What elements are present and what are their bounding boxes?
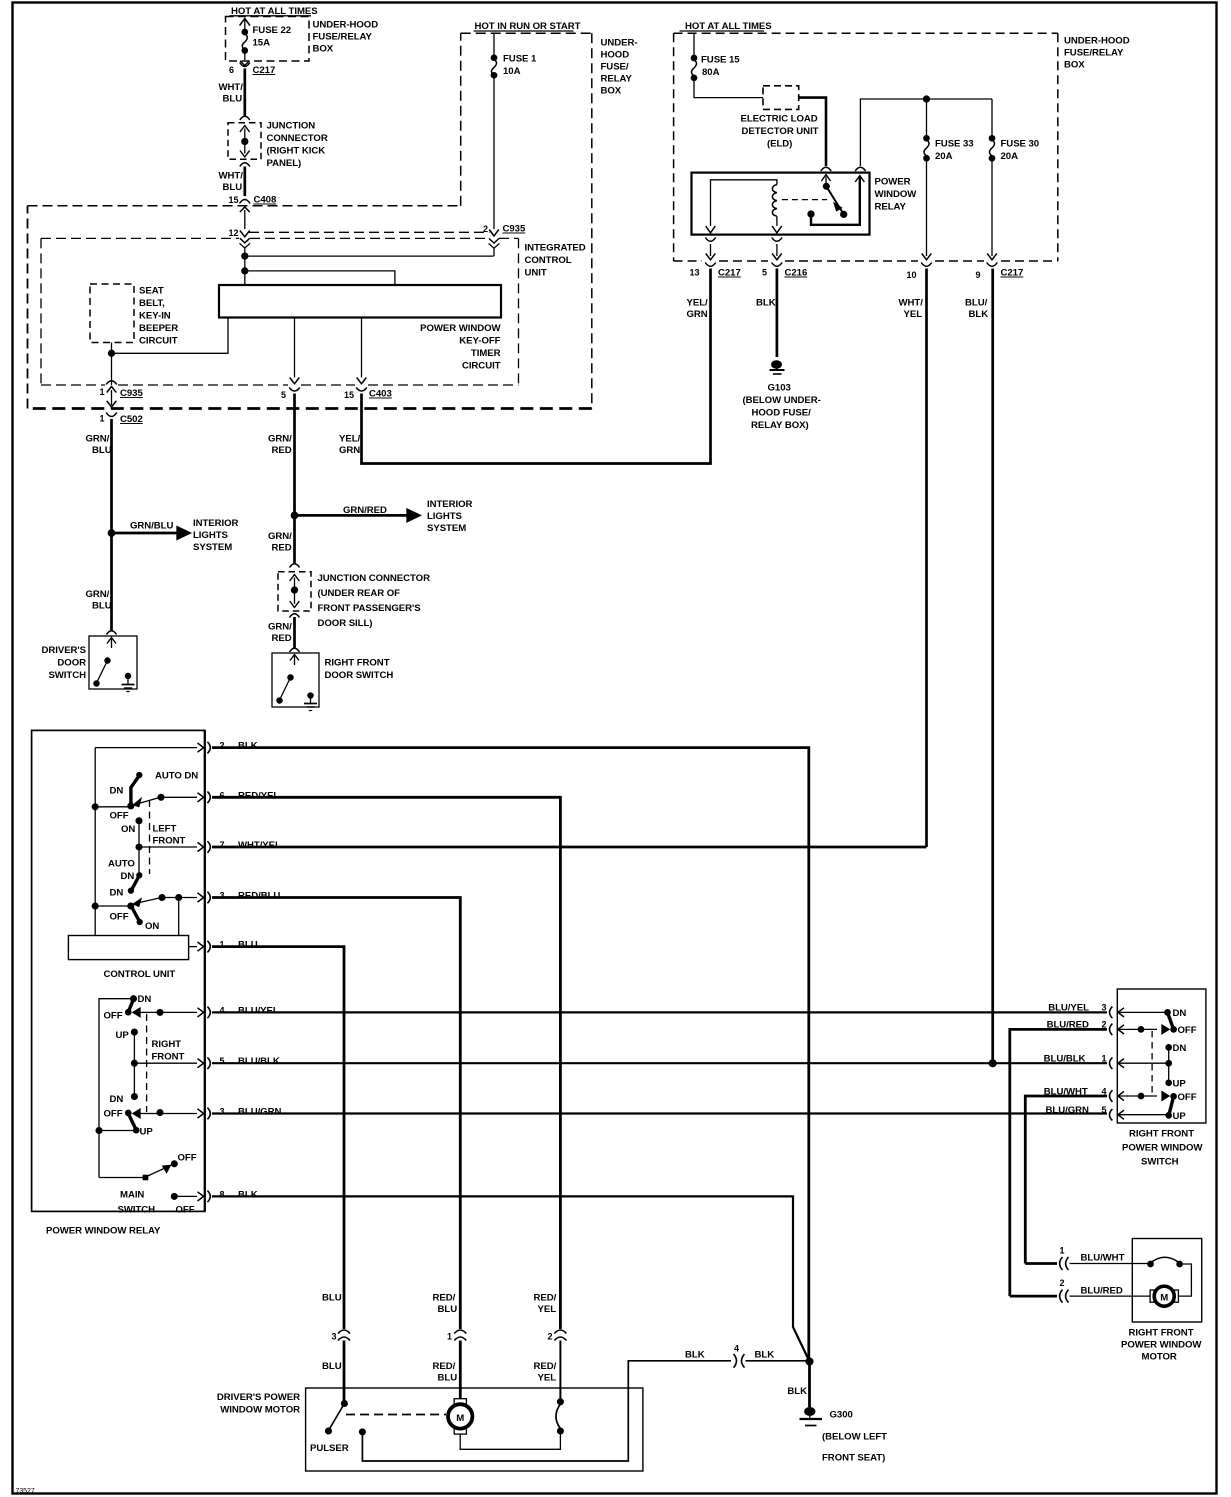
svg-text:1: 1: [447, 1332, 452, 1342]
svg-text:BELT,: BELT,: [139, 298, 165, 309]
svg-text:BLU: BLU: [223, 94, 243, 105]
svg-text:12: 12: [229, 228, 239, 238]
rf motor M1: [1150, 1286, 1178, 1306]
svg-text:80A: 80A: [702, 67, 720, 78]
mechanical link dashed (rf switch): [1151, 1031, 1153, 1095]
svg-text:ON: ON: [145, 921, 159, 932]
wire ELD to power window relay: [799, 98, 826, 166]
svg-text:BLK: BLK: [969, 309, 989, 320]
svg-text:WHT/YEL: WHT/YEL: [238, 840, 281, 851]
connector C935 pin 1: [100, 380, 144, 407]
svg-text:DN: DN: [121, 871, 135, 882]
svg-text:WHT/: WHT/: [899, 298, 924, 309]
svg-text:FRONT PASSENGER'S: FRONT PASSENGER'S: [318, 603, 422, 614]
svg-text:GRN: GRN: [339, 445, 360, 456]
mechanical link dashed (left front): [149, 800, 151, 874]
label POWER WINDOW RELAY: [875, 177, 918, 213]
svg-text:C502: C502: [120, 414, 143, 425]
svg-text:POWER WINDOW: POWER WINDOW: [1121, 1340, 1202, 1351]
svg-text:GRN/: GRN/: [268, 622, 292, 633]
svg-text:(RIGHT KICK: (RIGHT KICK: [267, 146, 326, 157]
svg-text:GRN: GRN: [687, 309, 708, 320]
right front rocker (down) switch: [104, 994, 204, 1022]
svg-text:20A: 20A: [1001, 151, 1019, 162]
svg-text:UP: UP: [1173, 1111, 1187, 1122]
wire RED/YEL driver column labels/connector: [534, 1293, 567, 1403]
master pin 4 BLU/YEL: [207, 1005, 278, 1018]
svg-text:(BELOW LEFT: (BELOW LEFT: [822, 1432, 887, 1443]
integrated control unit inner dashed box: [41, 238, 519, 385]
svg-text:UNIT: UNIT: [525, 268, 547, 279]
label JUNCTION CONNECTOR (RIGHT KICK PANEL): [267, 121, 328, 170]
label JUNCTION CONNECTOR (UNDER REAR...): [318, 573, 431, 629]
svg-text:C935: C935: [503, 224, 526, 235]
svg-text:G103: G103: [768, 383, 791, 394]
svg-text:DOOR SILL): DOOR SILL): [318, 618, 373, 629]
svg-text:OFF: OFF: [104, 1109, 123, 1120]
net label HOT AT ALL TIMES (left): [230, 6, 319, 17]
svg-text:4: 4: [734, 1344, 739, 1354]
svg-text:BLK: BLK: [756, 298, 776, 309]
svg-text:HOOD: HOOD: [601, 50, 630, 61]
pulser output contact and BLK path: [360, 1361, 732, 1461]
node left bus / left front manual: [92, 903, 98, 909]
svg-text:5: 5: [220, 1056, 225, 1066]
driver's power window motor box: [217, 1388, 643, 1471]
connector C403 pin 15: [344, 388, 392, 401]
svg-text:FRONT: FRONT: [153, 836, 186, 847]
svg-text:RED/BLU: RED/BLU: [238, 891, 280, 902]
svg-text:LIGHTS: LIGHTS: [193, 530, 229, 541]
svg-text:FUSE 30: FUSE 30: [1001, 139, 1040, 150]
svg-text:POWER WINDOW: POWER WINDOW: [420, 323, 501, 334]
left front ON contact: [121, 818, 142, 847]
svg-text:FRONT: FRONT: [152, 1052, 185, 1063]
svg-text:BLU: BLU: [322, 1361, 342, 1372]
label INTERIOR LIGHTS SYSTEM (right): [427, 499, 473, 534]
rf switch down lever: [1165, 1008, 1197, 1036]
svg-text:AUTO DN: AUTO DN: [155, 771, 198, 782]
svg-text:LIGHTS: LIGHTS: [427, 511, 463, 522]
svg-text:WHT/: WHT/: [219, 171, 244, 182]
wire RED/BLU row3 to driver motor: [212, 898, 460, 1330]
svg-text:2: 2: [548, 1332, 553, 1342]
wire RED/BLU driver column labels/connector: [433, 1293, 467, 1400]
svg-text:3: 3: [332, 1332, 337, 1342]
left front auto-dn lower contact: [108, 847, 142, 899]
svg-text:FUSE 22: FUSE 22: [253, 25, 292, 36]
fuse 1 value label: [503, 54, 537, 78]
svg-text:FUSE/RELAY: FUSE/RELAY: [313, 32, 373, 43]
svg-text:KEY-OFF: KEY-OFF: [459, 336, 500, 347]
svg-text:3: 3: [220, 891, 225, 901]
svg-text:C408: C408: [254, 195, 277, 206]
svg-text:CONTROL UNIT: CONTROL UNIT: [104, 969, 176, 980]
svg-text:9: 9: [976, 270, 981, 280]
main switch: [99, 1153, 197, 1216]
svg-text:BOX: BOX: [601, 86, 622, 97]
svg-text:C217: C217: [253, 65, 276, 76]
relay mechanical link dashed: [782, 199, 827, 201]
svg-text:GRN/: GRN/: [86, 589, 110, 600]
svg-text:UP: UP: [140, 1127, 154, 1138]
svg-text:BLU/BLK: BLU/BLK: [238, 1056, 280, 1067]
net label HOT AT ALL TIMES (right): [680, 21, 773, 32]
fuse F22 15A: [240, 19, 250, 61]
ground G103: [770, 361, 785, 374]
wire BLK to G300: [787, 1362, 809, 1408]
label SEAT BELT KEY-IN BEEPER CIRCUIT: [139, 286, 178, 347]
svg-text:BLK: BLK: [755, 1350, 775, 1361]
junction connector (right kick panel): [228, 116, 261, 166]
svg-text:6: 6: [229, 65, 234, 75]
fuse F33 20A: [924, 136, 929, 256]
master pin 7 WHT/YEL tap: [136, 840, 281, 853]
connector C408 pin 15: [229, 195, 277, 206]
svg-text:15: 15: [229, 195, 239, 205]
svg-text:FUSE 15: FUSE 15: [701, 55, 740, 66]
svg-text:RELAY BOX): RELAY BOX): [751, 420, 809, 431]
svg-text:BLK: BLK: [238, 1189, 258, 1200]
rf switch up lever: [1166, 1097, 1186, 1122]
svg-text:C935: C935: [120, 388, 143, 399]
driver motor M2: [448, 1399, 472, 1434]
svg-text:1: 1: [100, 387, 105, 397]
master pin 5 BLU/BLK: [207, 1056, 279, 1069]
wire GRN/RED right front door column: [293, 394, 296, 564]
wire GRN/BLU branch to interior lights: [112, 521, 191, 540]
connector C216 pin 5: [762, 263, 807, 279]
wire BLU driver column labels/connector: [322, 1293, 350, 1405]
svg-text:RED: RED: [272, 543, 292, 554]
connector C502 pin 1: [100, 413, 143, 426]
svg-text:BLU/GRN: BLU/GRN: [1046, 1105, 1089, 1116]
label INTERIOR LIGHTS SYSTEM (left): [193, 518, 239, 553]
svg-text:INTERIOR: INTERIOR: [427, 499, 473, 510]
wire GRN/BLU driver door column: [110, 419, 113, 631]
svg-text:OFF: OFF: [176, 1205, 195, 1216]
svg-text:C217: C217: [1001, 268, 1024, 279]
svg-text:RIGHT: RIGHT: [152, 1039, 182, 1050]
svg-text:LEFT: LEFT: [153, 824, 177, 835]
driver's door switch: [89, 631, 137, 692]
svg-text:DN: DN: [110, 786, 124, 797]
mechanical link dashed (right front master): [146, 1014, 148, 1112]
svg-text:RED: RED: [272, 445, 292, 456]
svg-text:C403: C403: [369, 389, 392, 400]
svg-text:WHT/: WHT/: [219, 82, 244, 93]
svg-text:RELAY: RELAY: [875, 202, 907, 213]
svg-text:GRN/: GRN/: [268, 531, 292, 542]
connector C408/C935 pin 12 symbols: [229, 207, 251, 256]
svg-text:BLU: BLU: [238, 940, 258, 951]
svg-text:2: 2: [220, 741, 225, 751]
svg-text:YEL/: YEL/: [339, 434, 361, 445]
svg-text:MOTOR: MOTOR: [1142, 1352, 1177, 1363]
svg-text:BLK: BLK: [787, 1386, 807, 1397]
svg-text:10A: 10A: [503, 66, 521, 77]
net label HOT IN RUN OR START: [474, 21, 581, 32]
svg-text:PULSER: PULSER: [310, 1443, 349, 1454]
svg-text:(BELOW UNDER-: (BELOW UNDER-: [743, 395, 821, 406]
wire BLK row2 to G300 junction: [212, 748, 809, 1362]
master pin 2 BLK: [95, 741, 257, 754]
right front rocker (up) switch: [96, 1109, 204, 1138]
wire BLU/YEL row4 to right front switch: [212, 1011, 1107, 1013]
wire BLU/WHT to rf motor: [1025, 1096, 1107, 1264]
svg-text:DN: DN: [138, 994, 152, 1005]
svg-text:OFF: OFF: [1178, 1025, 1197, 1036]
wire timer box to C403 pin 5: [290, 318, 300, 384]
rf motor brake contact arc: [1132, 1257, 1191, 1296]
right front section of master: left bus (lower): [99, 999, 133, 1178]
rf switch center contact chain: [1166, 1043, 1186, 1090]
svg-text:SWITCH: SWITCH: [1141, 1157, 1179, 1168]
svg-text:TIMER: TIMER: [471, 348, 501, 359]
rf switch pin 3 BLU/YEL: [1048, 1003, 1167, 1019]
svg-text:RED/: RED/: [433, 1293, 456, 1304]
under-hood fuse/relay box (right) dashed box: [674, 33, 1058, 261]
label G300 (BELOW LEFT FRONT SEAT): [822, 1410, 887, 1464]
wire WHT/YEL (C217-10 to master pin 7): [899, 269, 927, 848]
inline connector 4 BLK: [685, 1344, 810, 1368]
wires relay to C217/C216: [706, 244, 997, 260]
wire GRN/RED branch to interior lights: [295, 505, 421, 522]
right front UP contact chain: [110, 1029, 204, 1105]
svg-text:10: 10: [907, 270, 917, 280]
ground G300: [800, 1408, 823, 1426]
relay coil circuit: [706, 180, 782, 233]
svg-text:YEL/: YEL/: [687, 298, 709, 309]
rf switch pin 4 BLU/WHT: [1044, 1087, 1197, 1104]
outer dashed boundary of integrated control unit + fuse1 box: [28, 33, 592, 408]
under-hood fuse/relay box (fuse 22) dashed box: [226, 17, 310, 62]
master pin 8 BLK: [171, 1189, 257, 1215]
node BLK junction G300: [806, 1358, 813, 1365]
master pin 6 RED/YEL: [207, 790, 279, 803]
svg-text:FRONT SEAT): FRONT SEAT): [822, 1453, 885, 1464]
svg-text:YEL: YEL: [538, 1373, 557, 1384]
svg-text:DRIVER'S POWER: DRIVER'S POWER: [217, 1392, 300, 1403]
left front manual switch: [95, 893, 203, 936]
rf motor pin 2 connector BLU/RED: [1010, 1278, 1150, 1303]
fuse F30 20A: [989, 136, 994, 256]
svg-text:RIGHT FRONT: RIGHT FRONT: [325, 658, 390, 669]
svg-text:15A: 15A: [253, 38, 271, 49]
fuse F1 10A: [491, 33, 496, 229]
svg-text:JUNCTION: JUNCTION: [267, 121, 316, 132]
svg-text:YEL: YEL: [538, 1304, 557, 1315]
svg-text:BLU/RED: BLU/RED: [1081, 1286, 1123, 1297]
svg-text:1: 1: [100, 414, 105, 424]
svg-text:CIRCUIT: CIRCUIT: [139, 336, 178, 347]
svg-text:DRIVER'S: DRIVER'S: [41, 645, 86, 656]
wire WHT/BLU (upper): [243, 69, 246, 117]
label DRIVER'S DOOR SWITCH: [41, 645, 86, 681]
svg-text:3: 3: [1102, 1003, 1107, 1013]
svg-text:FUSE 1: FUSE 1: [503, 54, 537, 65]
svg-text:JUNCTION CONNECTOR: JUNCTION CONNECTOR: [318, 573, 431, 584]
svg-text:BOX: BOX: [1064, 60, 1085, 71]
svg-text:6: 6: [220, 790, 225, 800]
control unit box: [68, 936, 188, 981]
svg-text:RIGHT FRONT: RIGHT FRONT: [1129, 1129, 1194, 1140]
svg-text:BLU: BLU: [223, 182, 243, 193]
power window relay box: [692, 173, 870, 235]
label G103 (BELOW UNDER-HOOD FUSE/RELAY BOX): [743, 383, 821, 432]
dashed connector line pin12 to C935: [249, 231, 490, 233]
relay pin caps on top edge: [821, 167, 866, 171]
svg-text:GRN/BLU: GRN/BLU: [130, 521, 173, 532]
svg-text:POWER WINDOW RELAY: POWER WINDOW RELAY: [46, 1226, 161, 1237]
svg-text:CONNECTOR: CONNECTOR: [267, 133, 328, 144]
svg-text:UP: UP: [116, 1030, 130, 1041]
svg-text:UNDER-HOOD: UNDER-HOOD: [1064, 36, 1130, 47]
wire BLU row1 to driver motor pulser: [212, 947, 344, 1329]
fuse 15 value label: [701, 55, 740, 79]
svg-text:BLU: BLU: [92, 601, 112, 612]
svg-text:BOX: BOX: [313, 44, 334, 55]
label RIGHT FRONT DOOR SWITCH: [325, 658, 394, 682]
svg-text:73527: 73527: [16, 1488, 35, 1495]
svg-text:WINDOW: WINDOW: [875, 189, 918, 200]
wire BLU/RED to rf motor: [1010, 1029, 1107, 1296]
svg-text:1: 1: [220, 940, 225, 950]
svg-text:MAIN: MAIN: [120, 1190, 144, 1201]
label UNDER-HOOD FUSE/RELAY BOX (fuse 1): [601, 38, 638, 97]
rf motor pin 1 connector BLU/WHT: [1025, 1246, 1132, 1271]
svg-text:ELECTRIC LOAD: ELECTRIC LOAD: [741, 114, 818, 125]
svg-text:BLU: BLU: [438, 1373, 458, 1384]
svg-text:KEY-IN: KEY-IN: [139, 311, 171, 322]
svg-text:7: 7: [220, 840, 225, 850]
svg-text:20A: 20A: [935, 151, 953, 162]
master pin 3 RED/BLU: [207, 891, 280, 904]
svg-text:BLU/GRN: BLU/GRN: [238, 1107, 281, 1118]
svg-text:DETECTOR UNIT: DETECTOR UNIT: [742, 126, 819, 137]
svg-text:SYSTEM: SYSTEM: [193, 542, 232, 553]
left front auto-down switch: [95, 771, 203, 822]
label INTEGRATED CONTROL UNIT: [525, 243, 586, 279]
svg-text:HOOD FUSE/: HOOD FUSE/: [752, 408, 812, 419]
rf switch pin 5 BLU/GRN: [1046, 1105, 1168, 1121]
wire BLK to G103: [756, 269, 777, 358]
wire GRN/RED to right front door switch: [293, 617, 296, 649]
svg-text:RIGHT FRONT: RIGHT FRONT: [1129, 1328, 1194, 1339]
svg-text:BLU/BLK: BLU/BLK: [1044, 1054, 1086, 1065]
fuse 22 value label: [253, 25, 292, 49]
svg-text:INTEGRATED: INTEGRATED: [525, 243, 586, 254]
svg-text:POWER WINDOW: POWER WINDOW: [1122, 1143, 1203, 1154]
svg-text:5: 5: [281, 390, 286, 400]
power window relay (master switch) box: [32, 730, 205, 1236]
svg-text:OFF: OFF: [110, 912, 129, 923]
wire YEL/GRN (C217-13 to C403-15): [339, 269, 711, 464]
svg-text:DOOR SWITCH: DOOR SWITCH: [325, 670, 394, 681]
pulser switch: [310, 1401, 349, 1454]
svg-text:BLU/YEL: BLU/YEL: [238, 1005, 279, 1016]
svg-text:BLU: BLU: [322, 1293, 342, 1304]
svg-text:M: M: [1160, 1293, 1168, 1304]
wire RED/YEL row6 to driver motor: [212, 797, 560, 1329]
label POWER WINDOW KEY-OFF TIMER CIRCUIT: [420, 323, 501, 372]
svg-text:RED/YEL: RED/YEL: [238, 790, 279, 801]
svg-text:BLU: BLU: [92, 445, 112, 456]
node GRN/BLU branch: [108, 530, 114, 536]
svg-text:C216: C216: [785, 268, 808, 279]
svg-text:(UNDER REAR OF: (UNDER REAR OF: [318, 588, 401, 599]
node: wire to timer box second tap: [242, 258, 395, 285]
node: wire pin12 to C935-2: [242, 253, 494, 259]
node left bus / left front switch: [92, 804, 98, 810]
junction connector (under rear of front passenger's door sill): [278, 564, 311, 618]
svg-text:YEL: YEL: [904, 309, 923, 320]
svg-text:CONTROL: CONTROL: [525, 255, 572, 266]
svg-text:CIRCUIT: CIRCUIT: [462, 361, 501, 372]
rf switch pin 2 BLU/RED: [1047, 1020, 1169, 1036]
svg-text:BLU/YEL: BLU/YEL: [1048, 1003, 1089, 1014]
svg-text:DN: DN: [110, 1094, 124, 1105]
svg-text:OFF: OFF: [110, 811, 129, 822]
svg-text:OFF: OFF: [1178, 1092, 1197, 1103]
right front power window switch box: [1117, 989, 1206, 1168]
svg-text:SEAT: SEAT: [139, 286, 164, 297]
svg-text:OFF: OFF: [178, 1153, 197, 1164]
label UNDER-HOOD FUSE/RELAY BOX (fuse 22): [313, 20, 379, 55]
connector C217 pin 6: [229, 61, 275, 76]
svg-text:POWER: POWER: [875, 177, 911, 188]
svg-text:4: 4: [220, 1005, 225, 1015]
electric load detector unit (ELD) dashed box: [763, 86, 799, 110]
svg-text:M: M: [456, 1413, 464, 1424]
svg-text:AUTO: AUTO: [108, 859, 135, 870]
relay pin caps on bottom edge: [705, 238, 782, 242]
right front power window motor box: [1121, 1239, 1202, 1363]
right front door switch: [272, 648, 319, 710]
wire WHT/YEL row7: [212, 846, 927, 849]
svg-text:5: 5: [762, 268, 767, 278]
svg-text:SYSTEM: SYSTEM: [427, 523, 466, 534]
svg-text:ON: ON: [121, 824, 135, 835]
svg-text:RED: RED: [272, 633, 292, 644]
svg-text:(ELD): (ELD): [767, 139, 792, 150]
svg-text:G300: G300: [830, 1410, 853, 1421]
seat belt key-in beeper circuit dashed box: [90, 284, 134, 343]
relay switch contact: [808, 175, 864, 225]
master pin 1 BLU: [189, 940, 258, 953]
node GRN/RED branch: [291, 512, 297, 518]
wire BLU/GRN row to right front switch: [212, 1112, 1107, 1114]
wire timer box to C403 pin 15: [357, 318, 367, 384]
connector C217 pin 10: [907, 263, 932, 281]
svg-text:BLU/: BLU/: [965, 298, 988, 309]
wire relay to fuse bus: [860, 96, 992, 166]
svg-text:BLU: BLU: [438, 1304, 458, 1315]
label ELECTRIC LOAD DETECTOR UNIT (ELD): [741, 114, 819, 150]
svg-text:SWITCH: SWITCH: [48, 670, 86, 681]
connector C403 pin 5: [281, 388, 300, 401]
svg-text:FUSE 33: FUSE 33: [935, 139, 974, 150]
connector C935 pin 2: [483, 224, 526, 257]
svg-text:3: 3: [220, 1107, 225, 1117]
driver motor limit switch arc: [556, 1399, 563, 1434]
svg-text:UNDER-: UNDER-: [601, 38, 638, 49]
svg-text:PANEL): PANEL): [267, 158, 302, 169]
svg-text:RED/: RED/: [534, 1293, 557, 1304]
wire BLU/BLK (C217-9 to row 5): [965, 269, 993, 1064]
svg-text:RELAY: RELAY: [601, 74, 633, 85]
svg-text:SWITCH: SWITCH: [118, 1205, 156, 1216]
